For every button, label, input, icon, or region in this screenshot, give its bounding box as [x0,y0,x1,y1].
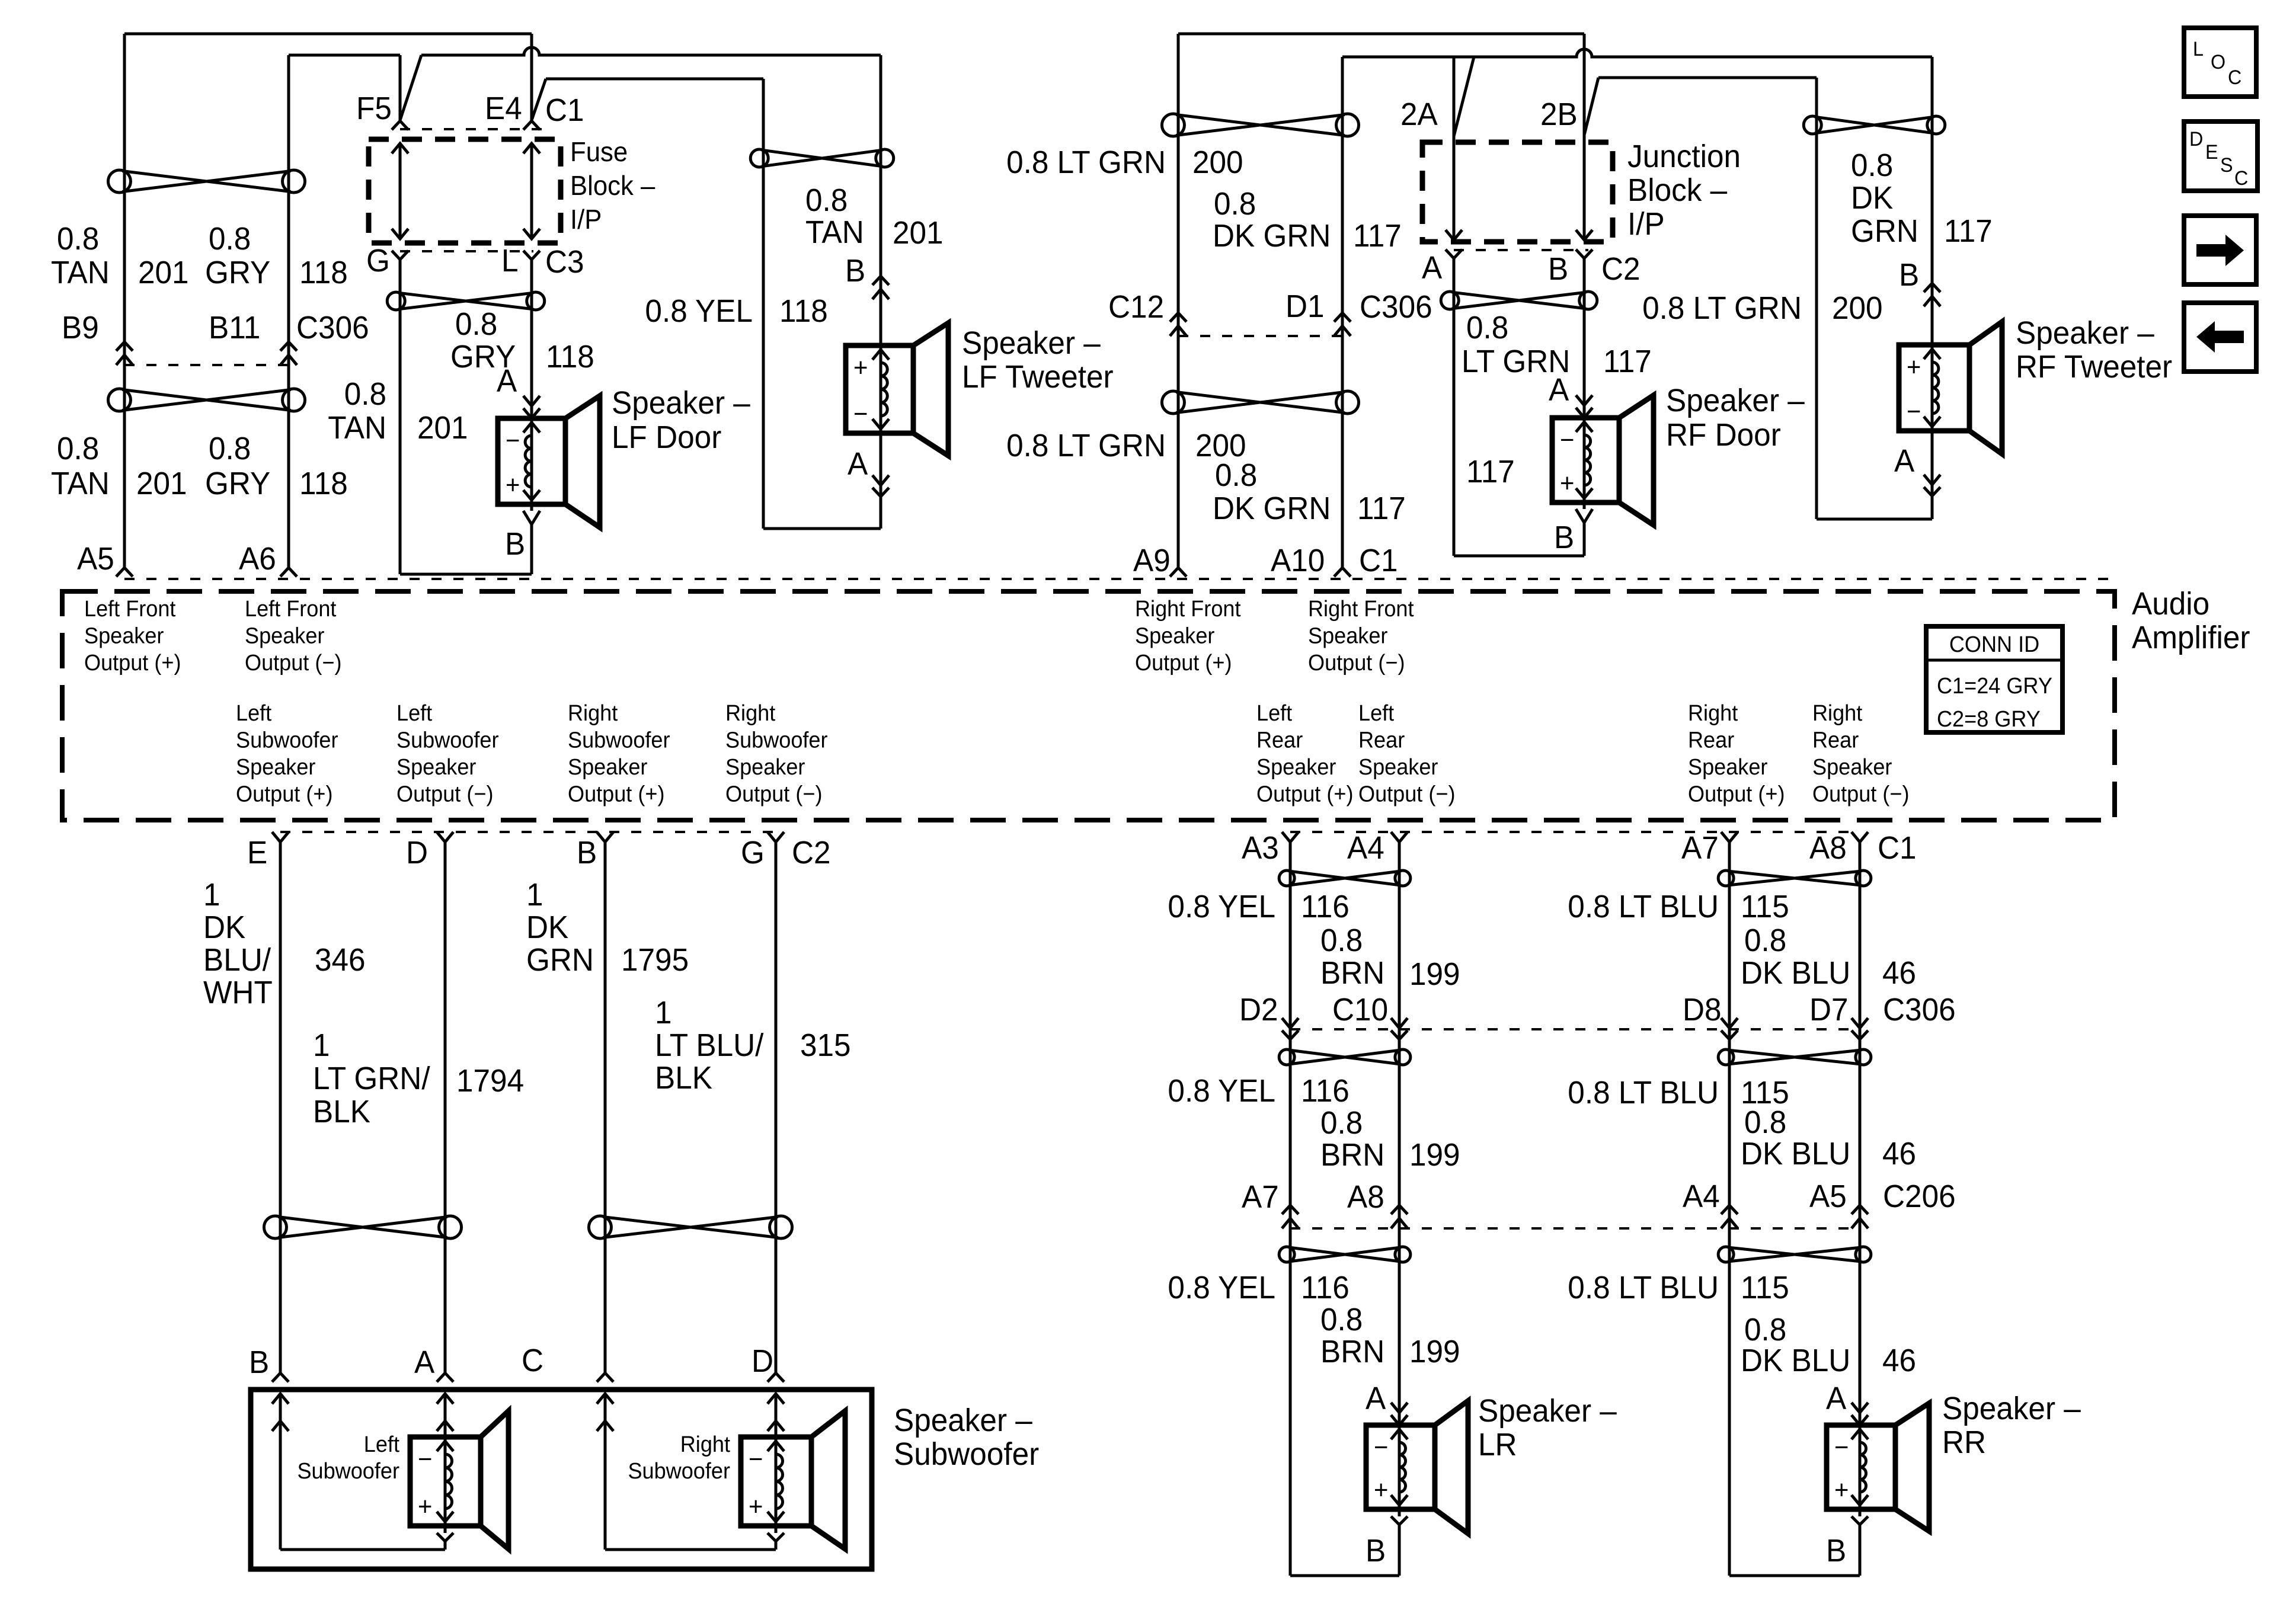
svg-text:Right: Right [725,700,776,725]
pin A7 connector fork [1721,832,1738,842]
twisted pair YEL/BRN 1 [1279,870,1411,886]
svg-text:Speaker: Speaker [1358,754,1438,779]
label A6 [239,541,276,577]
svg-text:A10: A10 [1271,543,1325,578]
twisted pair LT BLU/DK BLU 1 [1718,870,1871,886]
svg-text:Block –: Block – [1627,172,1728,208]
svg-text:Speaker: Speaker [84,623,164,648]
svg-text:+: + [418,1492,432,1521]
svg-text:+: + [506,470,520,500]
amp label Left Subwoofer Speaker Output (+) [236,700,338,806]
wire: 0.8 LT GRN 200 feed line (RF door) [1598,76,1817,79]
label 0.8 YEL [645,293,753,329]
svg-text:B: B [249,1345,269,1380]
svg-text:BLK: BLK [313,1094,370,1129]
svg-text:118: 118 [299,466,348,501]
svg-text:Left: Left [236,700,272,725]
svg-text:D: D [406,835,428,870]
svg-text:+: + [853,353,868,382]
wire: 0.8 TAN 201 drop to LF tweeter [880,55,882,345]
label 1794 [456,1063,524,1099]
svg-text:B: B [1826,1533,1846,1569]
svg-text:0.8: 0.8 [57,221,99,257]
wire: A4 to LR speaker (0.8 BRN 199) [1398,842,1401,1425]
svg-text:DK: DK [203,910,245,945]
label 199 row1 [1409,956,1460,992]
speaker - subwoofer enclosure box [251,1390,872,1569]
label A4 (C206) [1683,1179,1720,1214]
svg-text:117: 117 [1357,491,1406,526]
label 117 (upper) [1353,218,1402,254]
label 199 row2 [1409,1137,1460,1173]
svg-text:1795: 1795 [621,942,689,978]
svg-text:C2: C2 [1601,251,1641,287]
label 2A [1400,97,1438,132]
svg-text:Speaker: Speaker [1135,623,1214,648]
svg-text:115: 115 [1741,1270,1789,1305]
pin A8 connector fork [1851,832,1868,842]
svg-text:0.8: 0.8 [455,306,497,342]
svg-text:46: 46 [1882,955,1916,991]
label Speaker - LR [1478,1393,1617,1462]
amp label Right Subwoofer Speaker Output (+) [568,700,670,806]
svg-text:200: 200 [1192,145,1243,180]
svg-text:201: 201 [136,466,187,501]
svg-text:+: + [1834,1475,1849,1505]
label subwoofer pin D [752,1343,773,1379]
in-line connector pair at LF tweeter A [872,475,889,497]
svg-text:Right Front: Right Front [1135,596,1241,621]
label GRY (lower) [205,466,270,501]
pin G connector fork [392,251,408,260]
in-line connector pair D2 (C306) [1282,1018,1299,1039]
label 0.8 (lower GRY) [209,431,251,466]
label 0.8 LT BLU row1 [1568,889,1719,924]
label pin B (junction) [1548,251,1568,287]
svg-text:115: 115 [1741,889,1789,924]
label A9 [1133,543,1171,578]
label Audio Amplifier [2132,586,2250,655]
label A5 [77,541,114,577]
in-line connector pair B11 (C306) [280,342,297,365]
subwoofer internal wire from C [597,1394,776,1550]
svg-text:A: A [1894,443,1915,479]
svg-text:LR: LR [1478,1427,1517,1462]
subwoofer internal wire from A (double caret) [437,1394,453,1437]
svg-text:E: E [247,835,267,870]
amp label Right Subwoofer Speaker Output (-) [725,700,828,806]
wire: B to subwoofer C (1 DK GRN 1795) [604,842,607,1373]
label C1 (fuse block connector) [545,92,584,128]
label B11 [209,310,260,345]
label L [501,243,519,279]
svg-text:Speaker –: Speaker – [962,325,1101,361]
label 46 row3 [1882,1343,1916,1378]
svg-text:Junction: Junction [1627,139,1741,174]
svg-text:C206: C206 [1883,1179,1956,1214]
svg-text:Output (+): Output (+) [1688,781,1785,806]
svg-text:Speaker –: Speaker – [894,1403,1033,1438]
label 117 (lower) [1357,491,1406,526]
right subwoofer lower fork [768,1526,784,1550]
connector C1 dashed interface (F5/E4 row) [400,128,551,130]
label F5 [356,91,392,126]
label 0.8 (GRY to LF door) [455,306,497,342]
label Speaker - RF Door [1666,383,1805,453]
svg-text:0.8: 0.8 [1466,310,1508,345]
svg-text:A7: A7 [1681,830,1719,866]
label DK BLU row2 [1741,1136,1850,1172]
speaker - Left Subwoofer symbol [410,1411,509,1549]
label 0.8 (upper GRY) [209,221,251,257]
svg-text:0.8: 0.8 [1744,1105,1786,1140]
label terminal B (RF tweeter) [1899,257,1919,293]
twisted pair (0.8 YEL / 0.8 TAN) at LF tweeter [750,149,894,167]
fuse element E4 (double-headed arrow) [523,143,540,239]
label D8 [1683,992,1722,1028]
label C2 (junction connector) [1601,251,1641,287]
twisted pair (DK GRN with LT BLU/BLK) [589,1216,792,1238]
in-line connector pair A7 (C206) [1282,1205,1299,1228]
label circuit 118 (lower) [299,466,348,501]
svg-text:B: B [845,253,865,289]
svg-text:Left: Left [364,1431,400,1457]
svg-text:C10: C10 [1332,992,1388,1028]
label 346 [315,942,366,978]
label DK BLU row1 [1741,955,1850,991]
svg-text:DK GRN: DK GRN [1213,491,1331,526]
wire: 0.8 LT GRN 200 drop to RF tweeter return [1815,78,1818,519]
svg-text:117: 117 [1603,344,1652,379]
svg-text:D2: D2 [1239,992,1278,1028]
icon DESC box [2184,121,2257,191]
in-line connector pair at RF tweeter A [1924,475,1940,496]
label terminal B (LF tweeter) [845,253,865,289]
label Left Subwoofer [297,1431,399,1483]
svg-text:G: G [741,835,765,870]
svg-text:−: − [1560,425,1574,454]
label C306 [296,310,369,345]
svg-text:F5: F5 [356,91,392,126]
label A7 (C206) [1242,1179,1279,1215]
svg-text:Right: Right [680,1431,731,1457]
svg-text:−: − [1834,1433,1849,1462]
icon right-arrow box [2184,216,2256,284]
speaker - LR symbol [1366,1401,1468,1534]
svg-text:0.8: 0.8 [209,431,251,466]
connector fork at RF door terminal B [1576,502,1593,556]
connector at LR terminal A (double caret) [1391,1403,1408,1425]
label 315 [800,1028,851,1063]
label circuit 118 (upper) [299,255,348,290]
svg-text:TAN: TAN [51,466,110,501]
svg-text:118: 118 [299,255,348,290]
svg-text:−: − [853,399,868,428]
amplifier connector C2 dashed interface (E-G row) [280,831,776,833]
svg-text:0.8: 0.8 [1215,457,1257,493]
svg-text:199: 199 [1409,956,1460,992]
svg-text:GRN: GRN [526,942,594,978]
svg-text:CONN ID: CONN ID [1949,631,2039,657]
wire: radio C1/E4 drop [530,34,533,121]
wire: RR return bottom [1729,1574,1860,1577]
speaker - LF Tweeter symbol [846,323,948,456]
amp label Right Front Speaker Output (+) [1135,596,1241,675]
svg-text:Speaker –: Speaker – [1666,383,1805,418]
svg-text:DK GRN: DK GRN [1213,218,1331,254]
twisted pair LT BLU/DK BLU 3 [1718,1247,1871,1262]
svg-text:DK BLU: DK BLU [1741,1136,1850,1172]
node A10 connector fork at amplifier [1334,568,1351,577]
svg-text:Speaker: Speaker [236,754,315,779]
label G [366,243,390,279]
svg-text:0.8 LT BLU: 0.8 LT BLU [1568,1270,1719,1305]
wire: 0.8 GRY 118 from pin L down [530,260,533,418]
wire: right-front (+) top feed [1178,34,1584,568]
label Fuse Block - I/P [570,136,655,235]
connector fork at LF door terminal B [523,504,540,574]
label pin G (amp) [741,835,765,870]
wire: 0.8 YEL 118 feed line [546,78,763,81]
svg-text:0.8: 0.8 [1744,923,1786,958]
svg-text:Fuse: Fuse [570,136,628,167]
label pin E [247,835,267,870]
svg-text:116: 116 [1301,889,1350,924]
label 2B [1540,97,1578,132]
svg-text:A: A [848,446,868,482]
connector fork at LR terminal B [1391,1509,1408,1576]
amp label Left Rear Speaker Output (-) [1358,700,1455,806]
svg-text:A4: A4 [1683,1179,1720,1214]
label A8 (amp) [1809,830,1847,866]
svg-text:Speaker –: Speaker – [2016,315,2155,351]
svg-text:0.8: 0.8 [805,183,848,218]
svg-text:B: B [1554,520,1574,555]
svg-text:Speaker: Speaker [725,754,805,779]
label C3 [545,244,584,280]
connector at RR terminal A (double caret) [1851,1403,1868,1425]
label 0.8 row2 BRN [1320,1105,1363,1141]
svg-text:0.8: 0.8 [344,376,386,412]
svg-text:Output (−): Output (−) [1308,649,1405,675]
label 115 row2 [1741,1075,1789,1110]
svg-text:C306: C306 [1883,992,1956,1028]
label 0.8 (upper TAN) [57,221,99,257]
svg-text:−: − [749,1445,763,1474]
in-line connector pair A5 (C206) [1851,1205,1868,1228]
in-line connector pair C12 (C306) [1170,313,1187,336]
label terminal B (LR) [1366,1533,1386,1569]
svg-text:Speaker: Speaker [1308,623,1387,648]
svg-text:Left: Left [1256,700,1293,725]
wire: tap from E4 to 0.8 YEL 118 line (slant) [532,79,546,120]
label 0.8 LT GRN (upper right) [1006,145,1166,180]
label subwoofer pin B [249,1345,269,1380]
label 0.8 row1 DK BLU [1744,923,1786,958]
label 200 (lower) [1195,428,1246,463]
wire: 0.8 TAN 201 from pin G down [399,260,402,574]
svg-text:−: − [506,426,520,455]
svg-text:1: 1 [655,995,672,1030]
wire: left-front speaker output (-) feed (GRY 118) [289,55,400,568]
wire: A3 to LR speaker return (0.8 YEL 116) [1289,842,1292,1576]
label 0.8 row3 DK BLU [1744,1312,1786,1347]
connector C306 dashed interface (right front) [1178,335,1342,337]
label circuit 201 (upper) [138,255,189,290]
label 0.8 YEL row3 [1168,1270,1275,1305]
label 116 row2 [1301,1073,1350,1109]
svg-text:C3: C3 [545,244,584,280]
svg-text:0.8 LT GRN: 0.8 LT GRN [1642,290,1802,326]
label 0.8 (DK GRN upper) [1214,186,1256,222]
svg-text:+: + [1374,1475,1388,1505]
wire: RF door return bottom [1454,555,1584,558]
svg-text:O: O [2211,51,2225,73]
wire: left-front speaker output (+) top feed [124,34,532,568]
label BRN row3 [1320,1334,1384,1369]
label 115 row1 [1741,889,1789,924]
wire: 0.8 DK GRN 117 drop to RF tweeter [1931,57,1934,345]
svg-text:I/P: I/P [1627,206,1665,242]
svg-text:C: C [522,1343,543,1378]
in-line connector pair D7 (C306) [1851,1018,1868,1039]
label 0.8 (DK GRN tweeter) [1851,148,1893,183]
label Speaker - Subwoofer [894,1403,1039,1472]
label 0.8 LT BLU row3 [1568,1270,1719,1305]
pin L connector fork [523,251,540,260]
svg-text:Output (−): Output (−) [1812,781,1909,806]
svg-text:TAN: TAN [51,255,110,290]
twisted pair at RF tweeter [1803,116,1945,134]
pin F5 connector fork [392,121,408,130]
svg-text:201: 201 [417,410,468,446]
in-line connector pair D1 (C306) [1334,313,1351,336]
label 115 row3 [1741,1270,1789,1305]
in-line connector pair at LF tweeter B [872,276,889,299]
svg-text:BRN: BRN [1320,1334,1384,1369]
svg-text:2B: 2B [1540,97,1578,132]
svg-text:Subwoofer: Subwoofer [297,1458,399,1483]
subwoofer internal wire from B [272,1394,445,1550]
svg-text:Right: Right [568,700,618,725]
wire: right-front (-) feed with hop over 2B wire [1342,49,1932,568]
wire: 2A drop from (-) feed [1453,57,1456,240]
pin E4 connector fork [523,121,540,130]
label subwoofer pin A [414,1345,435,1380]
amp label Right Rear Speaker Output (-) [1812,700,1909,806]
svg-text:C: C [2228,66,2241,89]
pin A4 connector fork [1391,832,1408,842]
svg-text:Rear: Rear [1812,727,1859,753]
label Right Subwoofer [628,1431,730,1483]
svg-text:Output (+): Output (+) [236,781,332,806]
label terminal A (RR) [1826,1381,1847,1416]
svg-text:A3: A3 [1242,830,1279,866]
label 200 (tweeter return) [1832,290,1883,326]
wire: LF tweeter return bottom [763,527,881,530]
svg-text:118: 118 [779,293,828,329]
label 0.8 LT GRN (tweeter return) [1642,290,1802,326]
svg-text:D8: D8 [1683,992,1722,1028]
wire: LF door return bottom [400,573,532,576]
svg-text:B: B [1548,251,1568,287]
amp label Right Rear Speaker Output (+) [1688,700,1785,806]
label 0.8 (DK GRN lower) [1215,457,1257,493]
svg-text:0.8: 0.8 [1851,148,1893,183]
label 118 (to LF door) [546,339,594,375]
svg-text:D7: D7 [1809,992,1849,1028]
svg-text:A5: A5 [77,541,114,577]
svg-text:Subwoofer: Subwoofer [568,727,670,753]
wire: 0.8 YEL 118 drop to LF tweeter return [762,79,765,529]
label DK BLU row3 [1741,1343,1850,1378]
pin 2A arrow into junction block [1446,230,1462,240]
svg-text:LT BLU/: LT BLU/ [655,1028,764,1063]
svg-text:116: 116 [1301,1270,1350,1305]
svg-text:201: 201 [138,255,189,290]
wire: LF tweeter feed line (0.8 TAN 201) with hop over C1 wire [421,47,881,55]
label 117 (tweeter) [1944,213,1993,249]
subwoofer pin D fork [768,1373,784,1382]
label BRN row2 [1320,1137,1384,1173]
svg-text:A4: A4 [1347,830,1384,866]
svg-text:Block –: Block – [570,170,655,201]
svg-text:C1=24 GRY: C1=24 GRY [1937,673,2052,698]
svg-text:A: A [1422,250,1443,286]
label circuit 201 (lower) [136,466,187,501]
label 0.8 (LT GRN to RF door) [1466,310,1508,345]
label terminal B (RR) [1826,1533,1846,1569]
svg-text:C1: C1 [1878,830,1917,866]
svg-text:Output (−): Output (−) [245,649,341,675]
svg-text:C306: C306 [296,310,369,345]
connector C2 dashed interface (A/B row) [1454,249,1588,251]
svg-text:Subwoofer: Subwoofer [396,727,499,753]
svg-text:L: L [501,243,519,279]
wire: 2B drop from top feed [1583,34,1586,240]
amp label Right Front Speaker Output (-) [1308,596,1414,675]
label A7 (amp) [1681,830,1719,866]
svg-text:Speaker –: Speaker – [612,385,751,421]
label 117 (to RF door) [1603,344,1652,379]
svg-text:C12: C12 [1108,289,1164,325]
label 116 row1 [1301,889,1350,924]
svg-text:RF Door: RF Door [1666,417,1781,453]
label terminal A (RF door) [1549,372,1569,408]
label C1 (amplifier connector right) [1359,543,1398,578]
svg-text:A8: A8 [1809,830,1847,866]
svg-text:+: + [1907,353,1921,382]
pin B connector fork (amp) [597,832,613,842]
svg-text:Left Front: Left Front [245,596,337,621]
svg-text:0.8: 0.8 [57,431,99,466]
speaker - Right Subwoofer symbol [741,1411,845,1549]
label BRN row1 [1320,955,1384,991]
svg-text:DK BLU: DK BLU [1741,955,1850,991]
svg-text:A: A [1826,1381,1847,1416]
wire: 117 circuit from junction pin A down [1453,258,1456,556]
svg-text:C306: C306 [1360,289,1432,325]
svg-text:Left: Left [396,700,433,725]
pin B connector fork (junction) [1576,249,1593,258]
label 116 row3 [1301,1270,1350,1305]
svg-text:Subwoofer: Subwoofer [725,727,828,753]
label GRY (upper) [205,255,270,290]
label 46 row1 [1882,955,1916,991]
svg-text:Subwoofer: Subwoofer [236,727,338,753]
wire: 0.8 LT GRN 117 from junction pin B down [1583,258,1586,418]
svg-text:TAN: TAN [805,215,864,250]
